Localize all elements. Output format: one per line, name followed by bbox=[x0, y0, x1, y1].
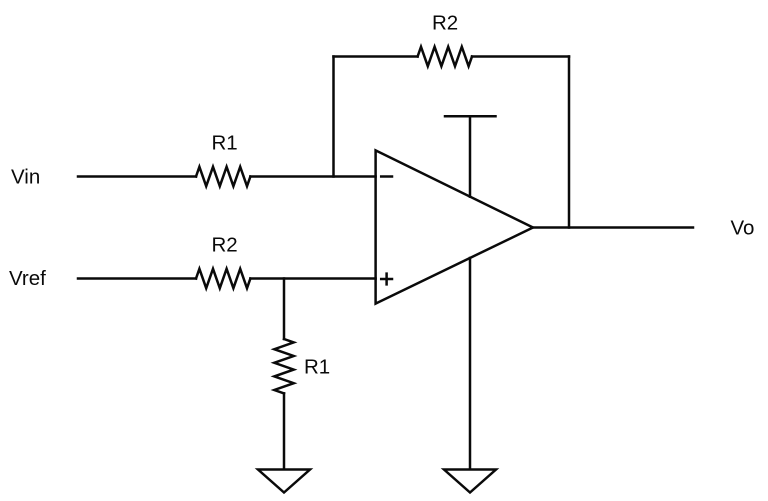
wire feedback left vertical bbox=[332, 57, 335, 177]
svg-text:R1: R1 bbox=[212, 132, 238, 155]
wire feedback top right segment bbox=[472, 55, 569, 58]
resistor R1 (to ground) bbox=[274, 339, 293, 393]
svg-text:Vin: Vin bbox=[11, 166, 40, 189]
wire junction node down to grounding resistor bbox=[283, 279, 286, 340]
wire power bar to op-amp top edge bbox=[469, 116, 472, 196]
resistor R1 (Vin input) bbox=[196, 167, 250, 186]
wire R1 to inverting input bbox=[250, 175, 375, 178]
svg-text:R1: R1 bbox=[304, 356, 330, 379]
svg-text:Vo: Vo bbox=[731, 217, 755, 240]
wire Vref input lead bbox=[78, 277, 196, 280]
wire output bbox=[533, 226, 693, 229]
wire R2 to non-inverting input bbox=[250, 277, 375, 280]
resistor R2 (feedback) bbox=[418, 47, 472, 66]
wire R1 to ground bbox=[283, 393, 286, 468]
wire feedback right vertical to output bbox=[568, 57, 571, 228]
svg-text:Vref: Vref bbox=[9, 267, 46, 290]
op-amp U1 bbox=[376, 150, 533, 303]
wire feedback top left segment bbox=[334, 55, 418, 58]
svg-text:R2: R2 bbox=[432, 12, 458, 35]
wire op-amp bottom edge to ground bbox=[469, 258, 472, 469]
ground (right) bbox=[444, 470, 496, 493]
wire Vin input lead bbox=[78, 175, 196, 178]
ground (left) bbox=[258, 470, 310, 493]
resistor R2 (Vref input) bbox=[196, 269, 250, 288]
power rail bar bbox=[445, 115, 496, 118]
svg-text:R2: R2 bbox=[212, 234, 238, 257]
